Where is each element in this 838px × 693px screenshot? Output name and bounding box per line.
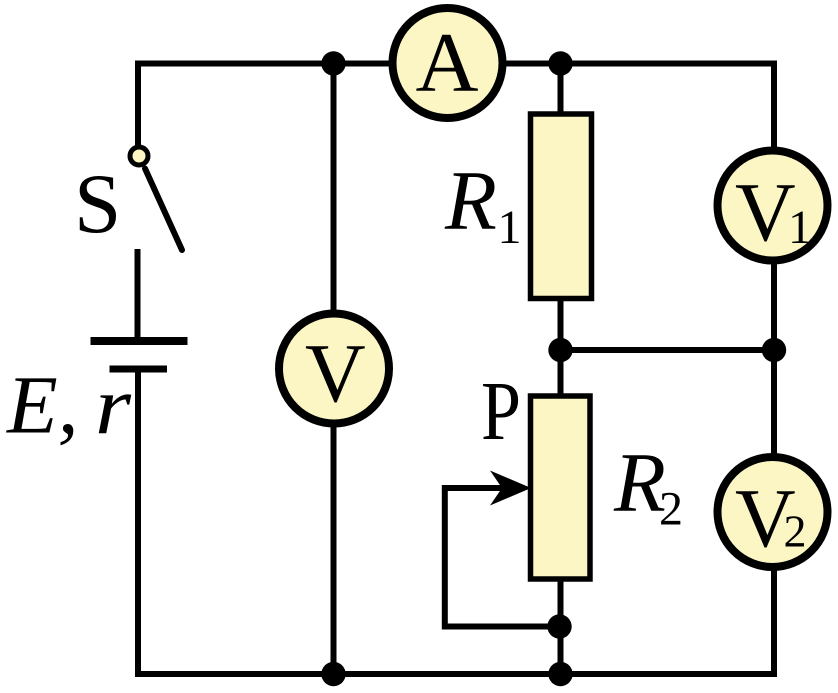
svg-text:r: r: [95, 360, 132, 452]
wire wiper arm: [445, 488, 560, 627]
wire middle branch vertical: [331, 64, 337, 675]
battery plate short: [110, 366, 168, 373]
voltmeter V2: [718, 457, 828, 567]
wire bottom horizontal: [135, 671, 777, 677]
svg-text:A: A: [416, 16, 479, 110]
node junction between R1 and R2: [548, 338, 572, 362]
wire middle horizontal: [561, 347, 775, 353]
wire switch lower lead: [135, 249, 141, 341]
svg-text:P: P: [481, 365, 521, 458]
svg-text:R: R: [444, 154, 497, 248]
resistor R1: [531, 114, 592, 299]
node junction wiper return: [547, 614, 571, 638]
node junction top R1: [548, 51, 572, 75]
switch S terminal: [130, 147, 148, 165]
node junction mid right: [762, 338, 786, 362]
battery plate long: [91, 337, 188, 345]
node junction bottom middle: [321, 662, 345, 686]
switch S blade: [145, 169, 182, 251]
wiper arrowhead: [490, 471, 531, 506]
svg-text:R: R: [613, 436, 666, 530]
wire top horizontal: [135, 61, 777, 67]
voltmeter V: [279, 314, 389, 424]
wire right vertical: [771, 61, 777, 678]
rheostat R2: [531, 396, 591, 579]
node junction bottom R2: [548, 662, 572, 686]
wire R1 top lead: [558, 64, 564, 121]
svg-text:2: 2: [659, 483, 683, 536]
svg-text:V: V: [305, 327, 366, 420]
svg-text:S: S: [74, 157, 121, 251]
ammeter A: [393, 8, 503, 118]
svg-text:1: 1: [498, 201, 522, 254]
svg-text:E,: E,: [6, 359, 78, 451]
wire R2 bottom lead: [558, 575, 564, 674]
wire left vertical lower (battery to bottom): [135, 369, 141, 677]
voltmeter V1: [718, 151, 828, 261]
svg-text:2: 2: [784, 506, 807, 557]
svg-text:V: V: [735, 166, 796, 259]
wire left vertical upper (to switch): [135, 61, 141, 147]
svg-text:1: 1: [788, 201, 812, 254]
wire R1 to R2 connector: [558, 294, 564, 400]
node junction top middle: [321, 51, 345, 75]
